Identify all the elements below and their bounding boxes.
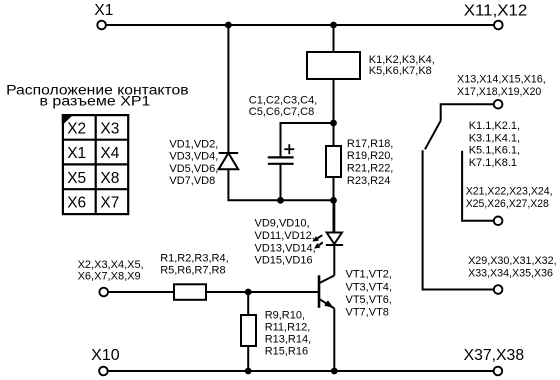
svg-text:VD9,VD10,: VD9,VD10, [255,218,310,230]
svg-text:X5: X5 [67,170,86,187]
transistor VT1-VT8 [319,275,334,308]
wire contact X21 branch [462,151,494,221]
collector diagonal [320,276,335,284]
svg-text:X6,X7,X8,X9: X6,X7,X8,X9 [78,270,141,282]
LED arrow 2 [314,242,323,248]
svg-text:X29,X30,X31,X32,: X29,X30,X31,X32, [468,255,556,267]
svg-text:X10: X10 [91,347,120,364]
junction node mid [330,197,337,204]
svg-text:VT1,VT2,: VT1,VT2, [346,269,392,281]
terminal X10 [99,367,108,376]
svg-text:VT7,VT8: VT7,VT8 [346,307,389,319]
svg-text:X7: X7 [100,195,119,212]
svg-text:R1,R2,R3,R4,: R1,R2,R3,R4, [160,252,228,264]
svg-text:X13,X14,X15,X16,: X13,X14,X15,X16, [457,74,546,86]
svg-text:X25,X26,X27,X28: X25,X26,X27,X28 [466,198,549,210]
terminal X13-X20 [494,100,503,109]
svg-text:X1: X1 [94,2,113,19]
svg-text:X1: X1 [67,145,86,162]
LED arrow 1 [313,235,323,241]
svg-text:K5,K6,K7,K8: K5,K6,K7,K8 [369,65,432,77]
svg-text:X4: X4 [100,145,119,162]
svg-text:X3: X3 [100,120,119,137]
svg-text:VT3,VT4,: VT3,VT4, [346,281,392,293]
svg-text:K1.1,K2.1,: K1.1,K2.1, [469,120,520,132]
svg-text:R19,R20,: R19,R20, [347,150,393,162]
svg-text:VD11,VD12,: VD11,VD12, [255,230,315,242]
svg-text:R9,R10,: R9,R10, [265,309,305,321]
svg-text:R23,R24: R23,R24 [347,175,390,187]
table corner marker [62,114,74,126]
connector table XP1 [63,115,128,214]
svg-text:K5.1,K6.1,: K5.1,K6.1, [469,145,520,157]
resistor R1-R8 [174,284,206,300]
wire resistor R17 bottom [333,177,335,233]
wire contact X29 branch [423,150,494,289]
wire R9 top [247,292,249,315]
base bar [318,275,321,308]
wire emitter down [333,308,335,371]
svg-text:VD3,VD4,: VD3,VD4, [169,151,218,163]
svg-text:K1,K2,K3,K4,: K1,K2,K3,K4, [369,54,435,66]
svg-text:X33,X34,X35,X36: X33,X34,X35,X36 [468,267,553,279]
wire coil bottom to resistor [333,79,335,146]
terminal X1 [97,21,106,30]
svg-text:X37,X38: X37,X38 [464,347,524,364]
terminal X37,X38 [494,367,503,376]
svg-text:R21,R22,: R21,R22, [347,163,393,175]
terminal X21-X28 [494,217,503,226]
svg-text:R13,R14,: R13,R14, [265,333,311,345]
junction node base [245,289,252,296]
wire R9 bottom [247,346,249,371]
svg-text:R15,R16: R15,R16 [265,345,308,357]
relay coil K1-K8 [307,52,360,79]
svg-text:X21,X22,X23,X24,: X21,X22,X23,X24, [466,186,553,198]
resistor R9-R16 [241,315,256,346]
svg-text:X17,X18,X19,X20: X17,X18,X19,X20 [457,86,541,98]
svg-text:VD15,VD16: VD15,VD16 [255,255,313,267]
switch blade K1.1 [425,121,441,150]
svg-text:VD1,VD2,: VD1,VD2, [169,138,218,150]
svg-text:VD13,VD14,: VD13,VD14, [255,242,316,254]
junction node cap-top [330,120,337,127]
LED VD9-VD16 [326,200,343,245]
capacitor plus sign [284,144,294,154]
wire base [108,291,174,293]
wire diode branch top [227,25,229,153]
wire cap top link [281,123,334,157]
svg-text:R11,R12,: R11,R12, [265,321,311,333]
wire coil top [333,25,335,52]
wire cap bottom [280,164,282,201]
svg-text:K7.1,K8.1: K7.1,K8.1 [469,157,517,169]
junction node top-coil [330,22,337,29]
svg-text:X11,X12: X11,X12 [464,2,528,19]
svg-text:в разъеме ХР1: в разъеме ХР1 [40,94,151,109]
junction node top-diode [225,22,232,29]
junction node bottom-R9 [245,368,252,375]
junction node cap-bottom [277,197,284,204]
wire bottom rail [108,370,494,372]
terminal X2-X9 [99,288,108,297]
svg-text:X6: X6 [67,195,86,212]
wire diode bottom node [228,169,333,200]
svg-text:X8: X8 [100,170,119,187]
svg-text:VD5,VD6,: VD5,VD6, [169,163,218,175]
emitter diagonal [320,299,335,308]
svg-text:VT5,VT6,: VT5,VT6, [346,294,392,306]
wire base 2 [206,291,318,293]
svg-text:VD7,VD8: VD7,VD8 [169,175,215,187]
svg-text:R5,R6,R7,R8: R5,R6,R7,R8 [160,265,225,277]
diode VD1-VD8 [219,153,239,169]
svg-text:C5,C6,C7,C8: C5,C6,C7,C8 [249,106,314,118]
svg-text:R17,R18,: R17,R18, [347,138,393,150]
capacitor C1-C8 [268,157,294,163]
svg-text:C1,C2,C3,C4,: C1,C2,C3,C4, [249,95,317,107]
svg-text:X2: X2 [67,120,86,137]
terminal X11,X12 [494,21,503,30]
terminal X29-X36 [494,285,503,294]
wire top rail [106,24,494,26]
junction node bottom-emitter [331,368,338,375]
resistor R17-R24 [326,146,341,177]
emitter arrowhead [324,300,333,308]
wire LED cathode to collector [333,245,335,276]
wire X13 lead [441,104,494,121]
svg-text:X2,X3,X4,X5,: X2,X3,X4,X5, [78,259,144,271]
svg-text:K3.1,K4.1,: K3.1,K4.1, [469,132,520,144]
